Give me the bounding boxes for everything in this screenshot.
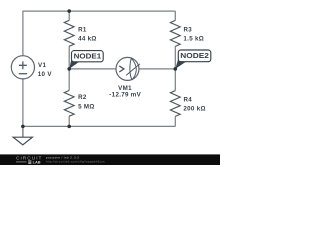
wire middle horizontal left (NODE1 to VM1)	[69, 68, 116, 70]
svg-text:1.5 kΩ: 1.5 kΩ	[183, 35, 204, 42]
resistor R4 200 kOhm	[170, 69, 205, 127]
resistor R2 5 MOhm	[64, 69, 94, 127]
svg-text:NODE1: NODE1	[74, 51, 102, 60]
svg-text:5 MΩ: 5 MΩ	[78, 104, 95, 111]
svg-text:10 V: 10 V	[38, 71, 53, 78]
svg-text:R1: R1	[78, 26, 87, 33]
junction dot NODE1	[67, 67, 71, 71]
svg-text:V1: V1	[38, 62, 46, 69]
resistor R3 1.5 kOhm	[170, 11, 204, 69]
node NODE2	[175, 50, 211, 69]
junction dot R2 bottom	[67, 125, 71, 129]
junction dot at R1 top	[67, 9, 71, 13]
svg-text:200 kΩ: 200 kΩ	[183, 105, 205, 112]
ground	[13, 126, 32, 144]
svg-text:NODE2: NODE2	[180, 51, 209, 60]
svg-text:http:⁄⁄circuitlab.com⁄c6g⁄lopg: http:⁄⁄circuitlab.com⁄c6g⁄lopgabh5om	[46, 160, 105, 164]
wire left vertical lower	[22, 79, 24, 127]
wire top horizontal	[23, 10, 175, 12]
resistor R1 44 kOhm	[64, 11, 96, 69]
junction dot NODE2	[174, 67, 178, 71]
svg-text:44 kΩ: 44 kΩ	[78, 35, 97, 42]
svg-text:LAB: LAB	[33, 160, 41, 165]
wire left vertical upper	[22, 11, 24, 56]
voltmeter VM1	[109, 57, 141, 98]
node NODE1	[69, 51, 103, 69]
voltage source V1 10 V	[11, 56, 52, 79]
svg-text:R3: R3	[184, 26, 193, 33]
svg-text:-12.79 mV: -12.79 mV	[109, 92, 141, 99]
junction dot ground	[21, 125, 25, 129]
watermark footer bar	[0, 154, 220, 165]
wire middle horizontal right (VM1 to NODE2)	[139, 68, 175, 70]
svg-text:R2: R2	[78, 94, 87, 101]
wire bottom horizontal	[23, 125, 175, 127]
svg-text:R4: R4	[184, 96, 193, 103]
